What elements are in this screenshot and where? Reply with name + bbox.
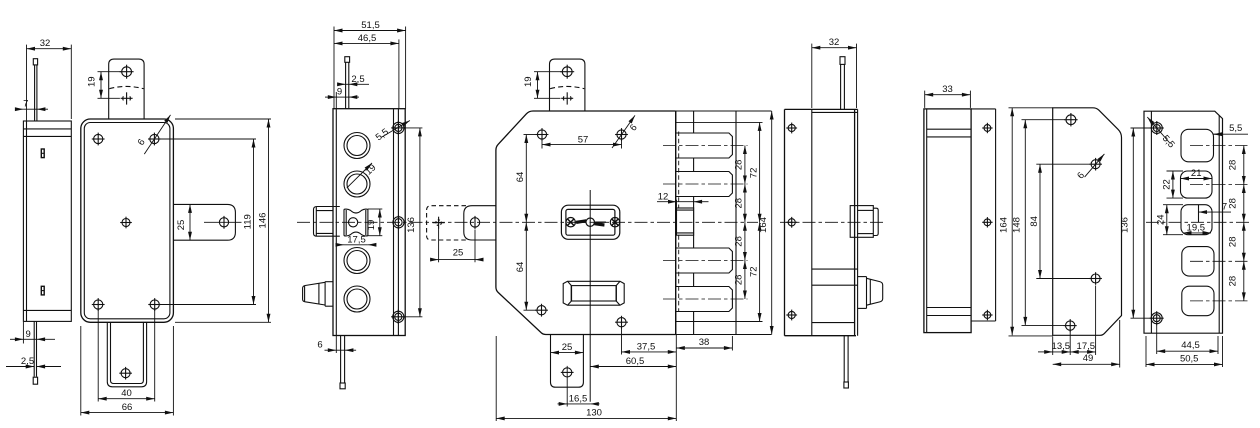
view3 cylinder circle 1 xyxy=(344,133,370,159)
keep inner left line xyxy=(926,109,928,333)
dim 19 view4 tab xyxy=(534,71,562,73)
view2 strap hole xyxy=(121,369,130,378)
view1 top band lines xyxy=(23,128,71,130)
svg-text:60,5: 60,5 xyxy=(626,356,645,367)
view6 hole bottom xyxy=(1066,321,1075,330)
dim 40 view2 xyxy=(97,310,99,402)
dim 25 view2 tab xyxy=(189,204,191,240)
dim 24 view7 xyxy=(1163,204,1183,206)
escutcheon screw right xyxy=(610,218,619,227)
dim 164 view4 xyxy=(771,111,773,335)
dim 28 column view7 xyxy=(1243,146,1245,185)
view3 bottom rod cap xyxy=(340,383,345,389)
view6 plate outline xyxy=(1053,108,1122,335)
view7 plate outline xyxy=(1144,111,1223,333)
dim 46,5 view3 xyxy=(398,39,400,108)
view7 fold line right xyxy=(1218,116,1220,334)
svg-text:64: 64 xyxy=(515,262,526,273)
dim 60,5 view4 xyxy=(590,366,676,368)
leader 5,5 view7 xyxy=(1147,117,1170,144)
view2 top tab xyxy=(109,59,144,119)
keep top bend lines xyxy=(927,128,971,130)
bolt 4 xyxy=(676,287,733,312)
dim 25 housing view4 xyxy=(438,229,440,263)
svg-text:50,5: 50,5 xyxy=(1180,353,1199,364)
view6 hole mid-bottom xyxy=(1091,274,1100,283)
svg-text:32: 32 xyxy=(829,37,840,48)
svg-text:32: 32 xyxy=(40,38,51,49)
view4 screw hole TR xyxy=(617,130,626,139)
svg-text:164: 164 xyxy=(758,217,769,233)
svg-text:57: 57 xyxy=(578,134,589,145)
view1 inner left edge xyxy=(26,121,28,321)
svg-text:28: 28 xyxy=(734,236,745,247)
view3 inner right lines xyxy=(393,109,395,336)
view4 plate outline xyxy=(496,111,676,335)
dim 72 lower view4 xyxy=(759,222,761,321)
view4 keyhole escutcheon xyxy=(561,205,619,239)
dim 33 view5b xyxy=(924,91,926,108)
view3 inner left edge xyxy=(335,109,337,336)
dim 51,5 view3 xyxy=(333,27,335,109)
dim 130 view4 xyxy=(495,336,497,421)
VIEW5B : keep box side view xyxy=(924,109,996,333)
svg-text:28: 28 xyxy=(1227,160,1238,171)
svg-text:12: 12 xyxy=(658,192,669,203)
view5 top edge xyxy=(785,108,858,110)
escutcheon screw left xyxy=(566,218,575,227)
svg-text:46,5: 46,5 xyxy=(358,33,377,44)
svg-text:19: 19 xyxy=(363,162,378,177)
svg-text:6: 6 xyxy=(628,122,640,133)
view3 faceplate hole bottom xyxy=(393,311,404,322)
key center circle xyxy=(586,218,594,226)
view4 tab bend dashed xyxy=(550,86,584,88)
dim 148 view6 xyxy=(1022,119,1065,121)
svg-text:146: 146 xyxy=(257,213,268,229)
svg-text:28: 28 xyxy=(1227,237,1238,248)
svg-text:17,5: 17,5 xyxy=(347,235,366,246)
view2 corner hole BR xyxy=(150,300,159,309)
view1 top rod xyxy=(34,65,36,121)
view2 corner hole BL xyxy=(94,300,103,309)
view4 left tab hole xyxy=(470,218,479,227)
dim 9 view1 xyxy=(22,322,24,344)
view1 body outline xyxy=(23,121,71,321)
view3 faceplate hole mid xyxy=(393,217,404,228)
view5 latch guide lines xyxy=(812,268,858,270)
view1 bottom rod xyxy=(33,321,35,376)
view5 body left edge xyxy=(811,109,813,335)
vertical key axis line xyxy=(589,190,591,402)
svg-text:19: 19 xyxy=(366,220,377,231)
view7 screw hole bottom xyxy=(1151,313,1162,324)
svg-text:37,5: 37,5 xyxy=(637,341,656,352)
svg-text:72: 72 xyxy=(748,266,759,277)
dim 44,5 view7 xyxy=(1156,325,1158,355)
dim 28 column view4 xyxy=(744,146,746,185)
dim 21 view7 xyxy=(1181,178,1213,180)
view4 lower follower box xyxy=(563,281,624,305)
view3 keyhole center hole xyxy=(349,218,358,227)
plate right edge over bolts xyxy=(675,111,677,335)
view2 tab hole xyxy=(122,67,132,77)
svg-text:49: 49 xyxy=(1083,353,1094,364)
dim 9 view3 xyxy=(335,92,337,109)
view4 screw hole BL xyxy=(537,306,546,315)
dim 13,5 view6 xyxy=(1052,337,1054,356)
svg-text:28: 28 xyxy=(734,198,745,209)
view3 body outline xyxy=(333,109,405,336)
view5 body right edges xyxy=(854,109,856,335)
dim 7 view7 xyxy=(1199,211,1232,213)
view4 top tab xyxy=(550,59,585,111)
svg-text:38: 38 xyxy=(699,337,710,348)
view5 top band xyxy=(812,111,858,113)
dim 84 view6 xyxy=(1036,163,1089,165)
keep bottom bend lines xyxy=(927,307,971,309)
leader 6 view4 xyxy=(612,115,635,148)
svg-text:164: 164 xyxy=(998,217,1009,233)
bolt 1 xyxy=(676,133,733,158)
svg-text:33: 33 xyxy=(942,84,953,95)
bolt 2 xyxy=(676,172,733,197)
bolt centerline 2 xyxy=(663,183,748,185)
VIEW6 : back mounting plate xyxy=(1053,108,1122,335)
svg-text:28: 28 xyxy=(1227,198,1238,209)
svg-text:136: 136 xyxy=(406,217,417,233)
svg-text:136: 136 xyxy=(1119,217,1130,233)
dim 66 view2 xyxy=(80,326,82,416)
dim 5,5 slot view7 xyxy=(1214,133,1249,135)
svg-text:5,5: 5,5 xyxy=(374,127,391,144)
view4 bottom tab hole xyxy=(563,368,572,377)
view4 tab hole xyxy=(562,67,572,77)
bolt centerline 4 xyxy=(663,298,748,300)
view5 bottom band xyxy=(812,322,855,324)
view3 keyhole element outline xyxy=(344,209,368,235)
view7 fold line left xyxy=(1150,111,1152,333)
svg-text:25: 25 xyxy=(453,247,464,258)
view2 center hole xyxy=(122,219,130,227)
keep outer box xyxy=(924,109,971,333)
svg-text:5,5: 5,5 xyxy=(1160,133,1177,150)
svg-text:28: 28 xyxy=(1227,276,1238,287)
leader dia6 view2 xyxy=(144,115,170,154)
view7 screw hole top xyxy=(1151,123,1162,134)
svg-text:6: 6 xyxy=(317,339,322,350)
dim 64 lower view4 xyxy=(524,309,537,311)
view4 bolt flange xyxy=(676,111,772,335)
view4 dashed housing box xyxy=(427,206,466,240)
key profile bar xyxy=(575,221,606,223)
leader 19 view3 xyxy=(347,163,372,188)
dim 12 view4 xyxy=(676,200,678,208)
svg-text:119: 119 xyxy=(242,214,253,229)
view2 tab target mark xyxy=(121,97,133,99)
view2 right tab xyxy=(173,204,235,240)
view7 slot 1 xyxy=(1181,129,1214,162)
dim 19 keyhole height view3 xyxy=(368,208,382,210)
view5 left plate edge xyxy=(784,109,786,335)
dim 6 view3 bottom xyxy=(335,336,337,354)
main horizontal centerline xyxy=(297,221,758,223)
dim 49 view6 xyxy=(1119,320,1121,368)
view5 bottom rod cap xyxy=(844,382,849,388)
dim 32 view1 xyxy=(26,45,28,121)
view3 cylinder circle 3 xyxy=(344,248,370,274)
svg-text:6: 6 xyxy=(1075,170,1087,181)
dim 72 upper view4 xyxy=(759,122,761,222)
view5 bottom rod xyxy=(843,336,845,382)
view2 tab bend line dashed xyxy=(109,86,143,88)
dim 17,5 view6 xyxy=(1095,286,1097,356)
view4 housing target mark xyxy=(433,222,445,224)
leader 5,5 view3 xyxy=(381,121,410,138)
keep plate hole mid xyxy=(984,219,991,226)
svg-text:19,5: 19,5 xyxy=(1187,222,1206,233)
svg-text:2,5: 2,5 xyxy=(21,356,34,367)
dim 136 view3 xyxy=(406,127,423,129)
small center bolt xyxy=(677,208,694,235)
dim 119 view2 xyxy=(159,138,256,140)
view6 hole dia6 xyxy=(1091,160,1100,169)
view3 top rod cap xyxy=(345,57,350,63)
svg-text:25: 25 xyxy=(562,342,573,353)
view4 tab target mark xyxy=(561,97,573,99)
svg-text:51,5: 51,5 xyxy=(361,20,380,31)
keep plate hole bottom xyxy=(984,312,991,319)
dim 2,5 view1 xyxy=(6,366,34,368)
view2 corner hole TR xyxy=(150,134,159,143)
view5 top rod cap xyxy=(840,57,845,65)
view2 bottom strap inner xyxy=(111,322,144,383)
svg-text:44,5: 44,5 xyxy=(1181,340,1200,351)
dim 50,5 view7 xyxy=(1145,336,1147,367)
view5 top rod xyxy=(840,64,842,109)
view2 body outer xyxy=(81,119,174,322)
dim 17,5 view3 xyxy=(338,244,344,246)
dim 16,5 view4 xyxy=(566,366,568,407)
view2 body inner xyxy=(84,123,170,319)
svg-text:5,5: 5,5 xyxy=(1229,123,1242,134)
keep plate hole top xyxy=(984,125,991,132)
view2 right tab hole xyxy=(219,218,228,227)
svg-text:72: 72 xyxy=(748,168,759,179)
svg-text:6: 6 xyxy=(136,137,148,148)
svg-text:9: 9 xyxy=(337,87,342,98)
view5 plate hole bottom xyxy=(788,311,795,318)
view1 top rod cap xyxy=(33,59,37,65)
svg-text:2,5: 2,5 xyxy=(351,74,364,85)
dim 32 view5 xyxy=(811,44,813,108)
svg-text:130: 130 xyxy=(586,408,602,419)
view3 cylinder boss left xyxy=(314,207,340,237)
view7 slot 5 xyxy=(1182,286,1214,316)
view3 latch bolt left xyxy=(325,281,333,283)
svg-text:148: 148 xyxy=(1011,217,1022,233)
dim 19 view2 tab xyxy=(98,71,122,73)
bolt 3 xyxy=(676,248,733,273)
view5 bottom edge xyxy=(785,335,857,337)
VIEW3 : faceplate edge view with cylinders xyxy=(303,57,406,389)
svg-text:25: 25 xyxy=(176,220,187,231)
VIEW4 : main lock body rear view xyxy=(427,59,676,387)
view5 centerline xyxy=(780,221,886,223)
view2 bottom strap outer xyxy=(107,322,146,387)
svg-text:13,5: 13,5 xyxy=(1052,341,1071,352)
view4 left tab xyxy=(464,206,496,240)
dim 22 view7 xyxy=(1167,170,1184,172)
dim 164 view6 xyxy=(1009,107,1053,109)
svg-text:28: 28 xyxy=(734,160,745,171)
view5 latch bolt right xyxy=(858,276,867,278)
dim 146 view2 xyxy=(175,118,271,120)
dim 25 bottom tab view4 xyxy=(551,352,584,354)
view7 slot 3 xyxy=(1181,205,1212,235)
keep back plate xyxy=(971,108,996,110)
view4 bottom tab xyxy=(551,335,584,388)
svg-text:64: 64 xyxy=(515,172,526,183)
hidden dashed line bolts xyxy=(678,132,680,209)
dim 7 view1 xyxy=(15,108,23,110)
view6 hole top xyxy=(1066,115,1076,125)
svg-text:7: 7 xyxy=(1222,202,1227,213)
dim 19,5 view7 xyxy=(1183,232,1211,234)
svg-text:19: 19 xyxy=(523,76,534,87)
svg-text:24: 24 xyxy=(1156,214,1167,225)
view1 clip lower xyxy=(41,286,44,295)
view3 faceplate hole top xyxy=(393,122,404,133)
view4 plate right edge xyxy=(675,111,677,335)
svg-text:84: 84 xyxy=(1029,216,1040,227)
dim 64 upper view4 xyxy=(524,134,537,136)
view1 bottom band line xyxy=(23,309,71,311)
svg-text:7: 7 xyxy=(23,99,28,110)
view5 plate hole mid xyxy=(788,219,795,226)
dim 2,5 view3 xyxy=(338,83,346,85)
svg-text:19: 19 xyxy=(87,76,98,87)
svg-text:17,5: 17,5 xyxy=(1077,341,1096,352)
svg-text:66: 66 xyxy=(122,402,133,413)
view3 cylinder circle 4 xyxy=(344,286,370,312)
view1 bottom rod cap xyxy=(33,377,37,384)
view3 bottom rod xyxy=(340,336,342,384)
VIEW5 : lock side view right xyxy=(785,57,883,388)
view1 clip upper xyxy=(41,149,44,158)
view5 plate hole top xyxy=(788,124,795,131)
bolt centerline 3 xyxy=(663,260,748,262)
view4 screw hole BR xyxy=(617,318,626,327)
view3 cylinder circle 2 xyxy=(344,171,370,197)
view7 slot 2 xyxy=(1181,171,1213,198)
svg-text:16,5: 16,5 xyxy=(569,394,588,405)
svg-text:28: 28 xyxy=(734,275,745,286)
leader 6 view6 xyxy=(1085,154,1105,177)
bolt centerline 1 xyxy=(663,145,748,147)
dim 38 view4 xyxy=(731,336,733,351)
svg-text:9: 9 xyxy=(26,329,31,340)
view7 slot centerlines xyxy=(1146,146,1250,301)
view4 screw hole TL xyxy=(537,130,546,139)
view3 top rod xyxy=(345,62,347,108)
VIEW2 : lock front view xyxy=(81,59,242,387)
VIEW7 : strike plate face view xyxy=(1144,111,1223,333)
svg-text:22: 22 xyxy=(1162,179,1173,190)
view7 slot 4 xyxy=(1182,247,1214,277)
svg-text:21: 21 xyxy=(1191,168,1202,179)
dim 57 view4 xyxy=(541,140,543,149)
dim 37,5 view4 xyxy=(621,327,623,354)
view5 cylinder boss right xyxy=(850,206,873,238)
svg-text:40: 40 xyxy=(121,388,132,399)
view2 corner hole TL xyxy=(94,134,103,143)
dim 136 view7 xyxy=(1131,127,1151,129)
